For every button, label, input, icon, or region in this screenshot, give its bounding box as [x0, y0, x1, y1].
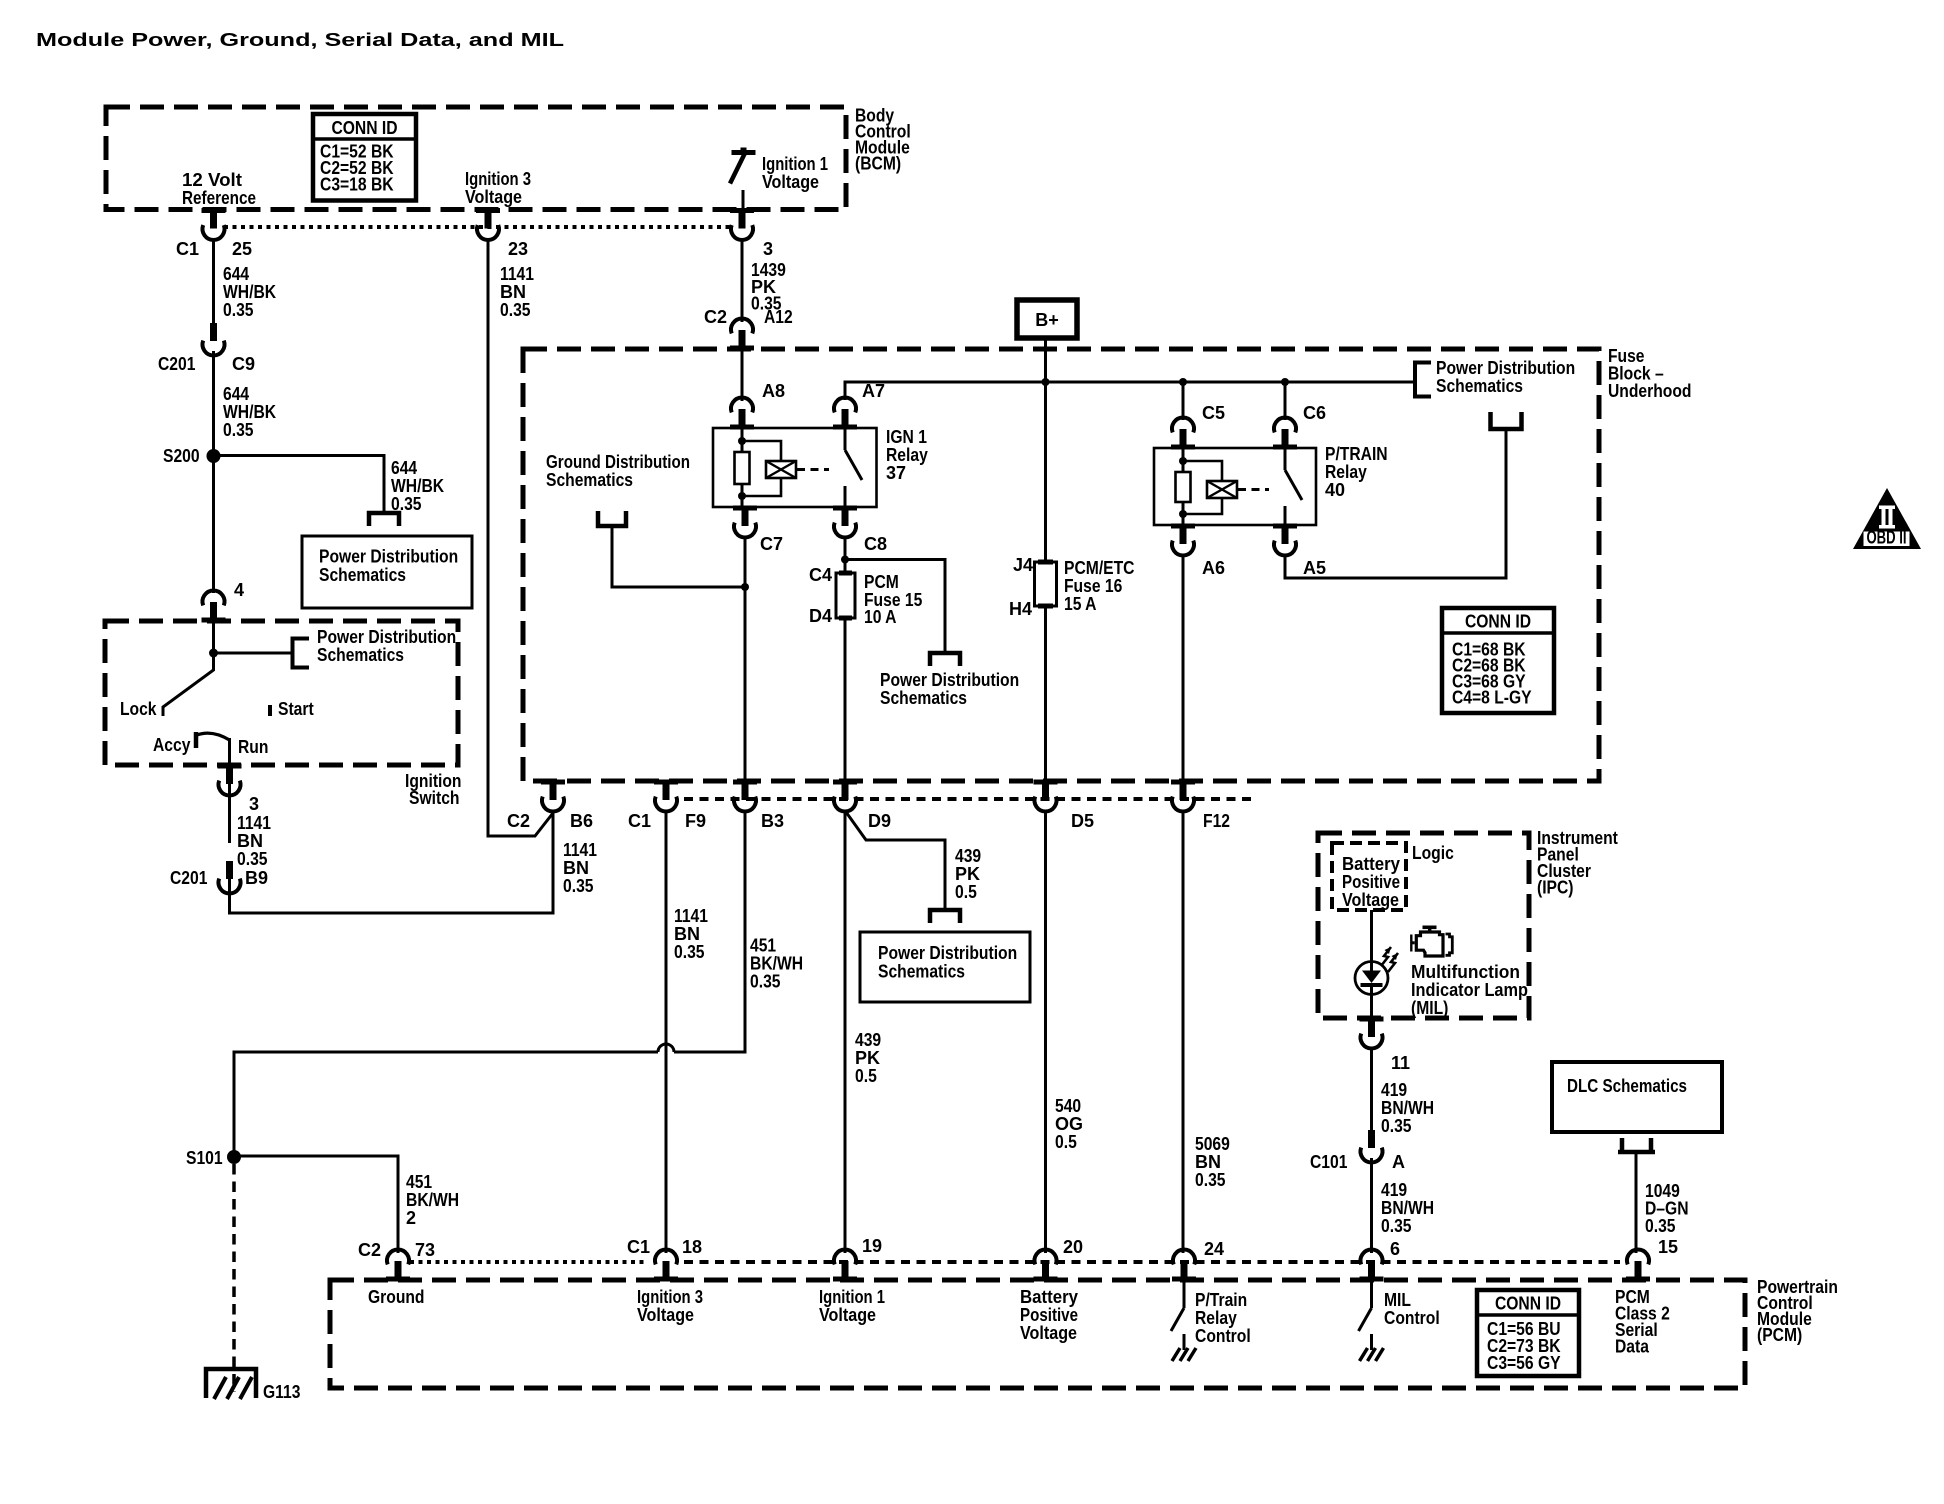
svg-text:6: 6 [1390, 1239, 1400, 1259]
svg-text:J4: J4 [1013, 555, 1033, 575]
svg-text:BN: BN [1195, 1152, 1221, 1172]
svg-text:Multifunction: Multifunction [1411, 962, 1520, 982]
svg-text:Switch: Switch [409, 788, 460, 808]
svg-text:Ignition 3: Ignition 3 [465, 169, 531, 189]
svg-text:C201: C201 [170, 868, 207, 888]
svg-text:18: 18 [682, 1237, 702, 1257]
svg-text:Data: Data [1615, 1337, 1650, 1357]
svg-text:Power Distribution: Power Distribution [880, 670, 1019, 690]
svg-text:B+: B+ [1035, 310, 1059, 330]
svg-text:Underhood: Underhood [1608, 381, 1692, 401]
svg-text:(BCM): (BCM) [855, 154, 901, 174]
svg-text:0.35: 0.35 [1381, 1216, 1412, 1236]
svg-text:Schematics: Schematics [319, 565, 406, 585]
svg-text:F12: F12 [1203, 811, 1230, 831]
svg-text:C101: C101 [1310, 1152, 1347, 1172]
svg-text:25: 25 [232, 239, 252, 259]
svg-text:PK: PK [855, 1048, 880, 1068]
svg-text:WH/BK: WH/BK [391, 476, 444, 496]
svg-text:0.35: 0.35 [674, 942, 705, 962]
svg-text:Reference: Reference [182, 188, 256, 208]
svg-text:Power Distribution: Power Distribution [878, 943, 1017, 963]
svg-text:Power Distribution: Power Distribution [319, 547, 458, 567]
svg-text:Voltage: Voltage [819, 1305, 876, 1325]
svg-text:644: 644 [391, 458, 417, 478]
svg-text:Lock: Lock [120, 699, 157, 719]
svg-text:A7: A7 [862, 381, 885, 401]
svg-text:1141: 1141 [500, 264, 534, 284]
svg-text:PCM/ETC: PCM/ETC [1064, 558, 1135, 578]
svg-text:Relay: Relay [1195, 1308, 1237, 1328]
svg-text:Schematics: Schematics [878, 962, 965, 982]
svg-text:3: 3 [763, 239, 773, 259]
svg-text:CONN ID: CONN ID [1465, 612, 1531, 632]
svg-text:Schematics: Schematics [317, 645, 404, 665]
svg-text:C8: C8 [864, 534, 887, 554]
svg-text:BN: BN [674, 924, 700, 944]
svg-text:0.5: 0.5 [1055, 1132, 1077, 1152]
svg-text:3: 3 [249, 794, 259, 814]
svg-text:451: 451 [750, 936, 776, 956]
svg-text:Voltage: Voltage [465, 187, 522, 207]
svg-text:451: 451 [406, 1172, 432, 1192]
svg-text:Ignition 1: Ignition 1 [819, 1287, 885, 1307]
svg-text:OBD II: OBD II [1867, 528, 1907, 548]
svg-text:(IPC): (IPC) [1537, 878, 1574, 898]
svg-text:73: 73 [415, 1240, 435, 1260]
svg-text:37: 37 [886, 463, 906, 483]
svg-text:CONN ID: CONN ID [1495, 1294, 1561, 1314]
svg-text:C9: C9 [232, 354, 255, 374]
svg-text:BN: BN [237, 831, 263, 851]
svg-text:(PCM): (PCM) [1757, 1325, 1802, 1345]
svg-text:P/TRAIN: P/TRAIN [1325, 444, 1388, 464]
svg-text:PK: PK [955, 864, 980, 884]
svg-text:Power Distribution: Power Distribution [317, 627, 456, 647]
svg-text:BN: BN [563, 858, 589, 878]
svg-text:D9: D9 [868, 811, 891, 831]
svg-text:0.5: 0.5 [955, 882, 977, 902]
svg-text:0.35: 0.35 [237, 849, 268, 869]
svg-text:2: 2 [406, 1208, 416, 1228]
svg-text:15 A: 15 A [1064, 594, 1097, 614]
svg-text:Voltage: Voltage [1342, 890, 1399, 910]
svg-text:A6: A6 [1202, 558, 1225, 578]
svg-text:C2: C2 [358, 1240, 381, 1260]
svg-text:A5: A5 [1303, 558, 1326, 578]
svg-text:C5: C5 [1202, 403, 1225, 423]
svg-text:644: 644 [223, 264, 249, 284]
svg-text:C4=8 L-GY: C4=8 L-GY [1452, 688, 1532, 708]
svg-text:0.35: 0.35 [750, 972, 781, 992]
svg-text:C6: C6 [1303, 403, 1326, 423]
svg-text:0.35: 0.35 [500, 300, 531, 320]
svg-text:5069: 5069 [1195, 1134, 1230, 1154]
svg-text:BN: BN [500, 282, 526, 302]
svg-text:Battery: Battery [1342, 854, 1400, 874]
svg-text:Ignition 1: Ignition 1 [762, 154, 828, 174]
svg-text:CONN ID: CONN ID [331, 118, 397, 138]
svg-text:Fuse 16: Fuse 16 [1064, 576, 1122, 596]
svg-text:644: 644 [223, 384, 249, 404]
svg-text:0.35: 0.35 [563, 876, 594, 896]
svg-text:D4: D4 [809, 606, 832, 626]
svg-text:C201: C201 [158, 354, 195, 374]
svg-text:Battery: Battery [1020, 1287, 1078, 1307]
svg-text:PCM: PCM [864, 572, 899, 592]
svg-text:Module Power, Ground, Serial D: Module Power, Ground, Serial Data, and M… [36, 30, 564, 50]
svg-text:419: 419 [1381, 1180, 1407, 1200]
svg-text:419: 419 [1381, 1080, 1407, 1100]
svg-text:Schematics: Schematics [880, 688, 967, 708]
svg-text:Schematics: Schematics [546, 470, 633, 490]
svg-text:C3=18 BK: C3=18 BK [320, 175, 394, 195]
svg-text:Indicator Lamp: Indicator Lamp [1411, 980, 1528, 1000]
svg-text:OG: OG [1055, 1114, 1083, 1134]
svg-text:4: 4 [234, 580, 244, 600]
svg-text:C7: C7 [760, 534, 783, 554]
svg-text:0.5: 0.5 [855, 1066, 877, 1086]
svg-text:23: 23 [508, 239, 528, 259]
svg-text:B6: B6 [570, 811, 593, 831]
svg-text:C1: C1 [627, 1237, 650, 1257]
svg-text:24: 24 [1204, 1239, 1224, 1259]
svg-text:0.35: 0.35 [391, 494, 422, 514]
svg-text:Logic: Logic [1412, 843, 1454, 863]
svg-text:B3: B3 [761, 811, 784, 831]
svg-text:0.35: 0.35 [1195, 1170, 1226, 1190]
svg-text:BK/WH: BK/WH [750, 954, 803, 974]
svg-text:A: A [1392, 1152, 1405, 1172]
svg-text:A12: A12 [764, 307, 793, 327]
svg-text:C2: C2 [507, 811, 530, 831]
svg-text:F9: F9 [685, 811, 706, 831]
svg-text:1141: 1141 [237, 813, 271, 833]
svg-text:Voltage: Voltage [1020, 1323, 1077, 1343]
svg-text:12 Volt: 12 Volt [182, 170, 242, 190]
svg-text:BK/WH: BK/WH [406, 1190, 459, 1210]
svg-text:G113: G113 [263, 1382, 300, 1402]
svg-text:Schematics: Schematics [1436, 376, 1523, 396]
svg-text:Control: Control [1195, 1326, 1251, 1346]
svg-text:C1: C1 [628, 811, 651, 831]
svg-text:40: 40 [1325, 480, 1345, 500]
svg-text:0.35: 0.35 [1381, 1116, 1412, 1136]
svg-text:(MIL): (MIL) [1411, 998, 1448, 1018]
svg-text:0.35: 0.35 [223, 420, 254, 440]
svg-text:439: 439 [855, 1030, 881, 1050]
svg-text:C2: C2 [704, 307, 727, 327]
svg-text:540: 540 [1055, 1096, 1081, 1116]
svg-text:Run: Run [238, 737, 268, 757]
svg-text:Positive: Positive [1342, 872, 1400, 892]
svg-text:B9: B9 [245, 868, 268, 888]
svg-text:P/Train: P/Train [1195, 1290, 1247, 1310]
svg-text:C4: C4 [809, 565, 832, 585]
svg-text:WH/BK: WH/BK [223, 402, 276, 422]
svg-text:Positive: Positive [1020, 1305, 1078, 1325]
svg-text:10 A: 10 A [864, 607, 897, 627]
svg-text:D5: D5 [1071, 811, 1094, 831]
svg-text:WH/BK: WH/BK [223, 282, 276, 302]
svg-text:H4: H4 [1009, 599, 1032, 619]
svg-text:C1: C1 [176, 239, 199, 259]
svg-text:15: 15 [1658, 1237, 1678, 1257]
svg-text:1141: 1141 [563, 840, 597, 860]
svg-text:1141: 1141 [674, 906, 708, 926]
svg-text:Relay: Relay [1325, 462, 1367, 482]
svg-text:11: 11 [1391, 1053, 1410, 1073]
svg-text:Accy: Accy [153, 735, 190, 755]
svg-text:BN/WH: BN/WH [1381, 1098, 1434, 1118]
svg-text:0.35: 0.35 [1645, 1216, 1676, 1236]
svg-text:20: 20 [1063, 1237, 1083, 1257]
svg-text:0.35: 0.35 [223, 300, 254, 320]
svg-text:Voltage: Voltage [762, 172, 819, 192]
svg-text:DLC Schematics: DLC Schematics [1567, 1076, 1687, 1096]
svg-text:BN/WH: BN/WH [1381, 1198, 1434, 1218]
svg-text:Power Distribution: Power Distribution [1436, 358, 1575, 378]
svg-text:Relay: Relay [886, 445, 928, 465]
svg-text:Ground Distribution: Ground Distribution [546, 452, 690, 472]
svg-text:S101: S101 [186, 1148, 223, 1168]
svg-text:A8: A8 [762, 381, 785, 401]
svg-text:IGN 1: IGN 1 [886, 427, 927, 447]
svg-text:439: 439 [955, 846, 981, 866]
svg-text:Ignition 3: Ignition 3 [637, 1287, 703, 1307]
svg-text:19: 19 [862, 1236, 882, 1256]
svg-text:MIL: MIL [1384, 1290, 1411, 1310]
svg-text:S200: S200 [163, 446, 200, 466]
svg-text:C3=56 GY: C3=56 GY [1487, 1353, 1561, 1373]
svg-text:Ground: Ground [368, 1287, 425, 1307]
svg-text:Start: Start [278, 699, 314, 719]
svg-text:Voltage: Voltage [637, 1305, 694, 1325]
svg-text:Control: Control [1384, 1308, 1440, 1328]
